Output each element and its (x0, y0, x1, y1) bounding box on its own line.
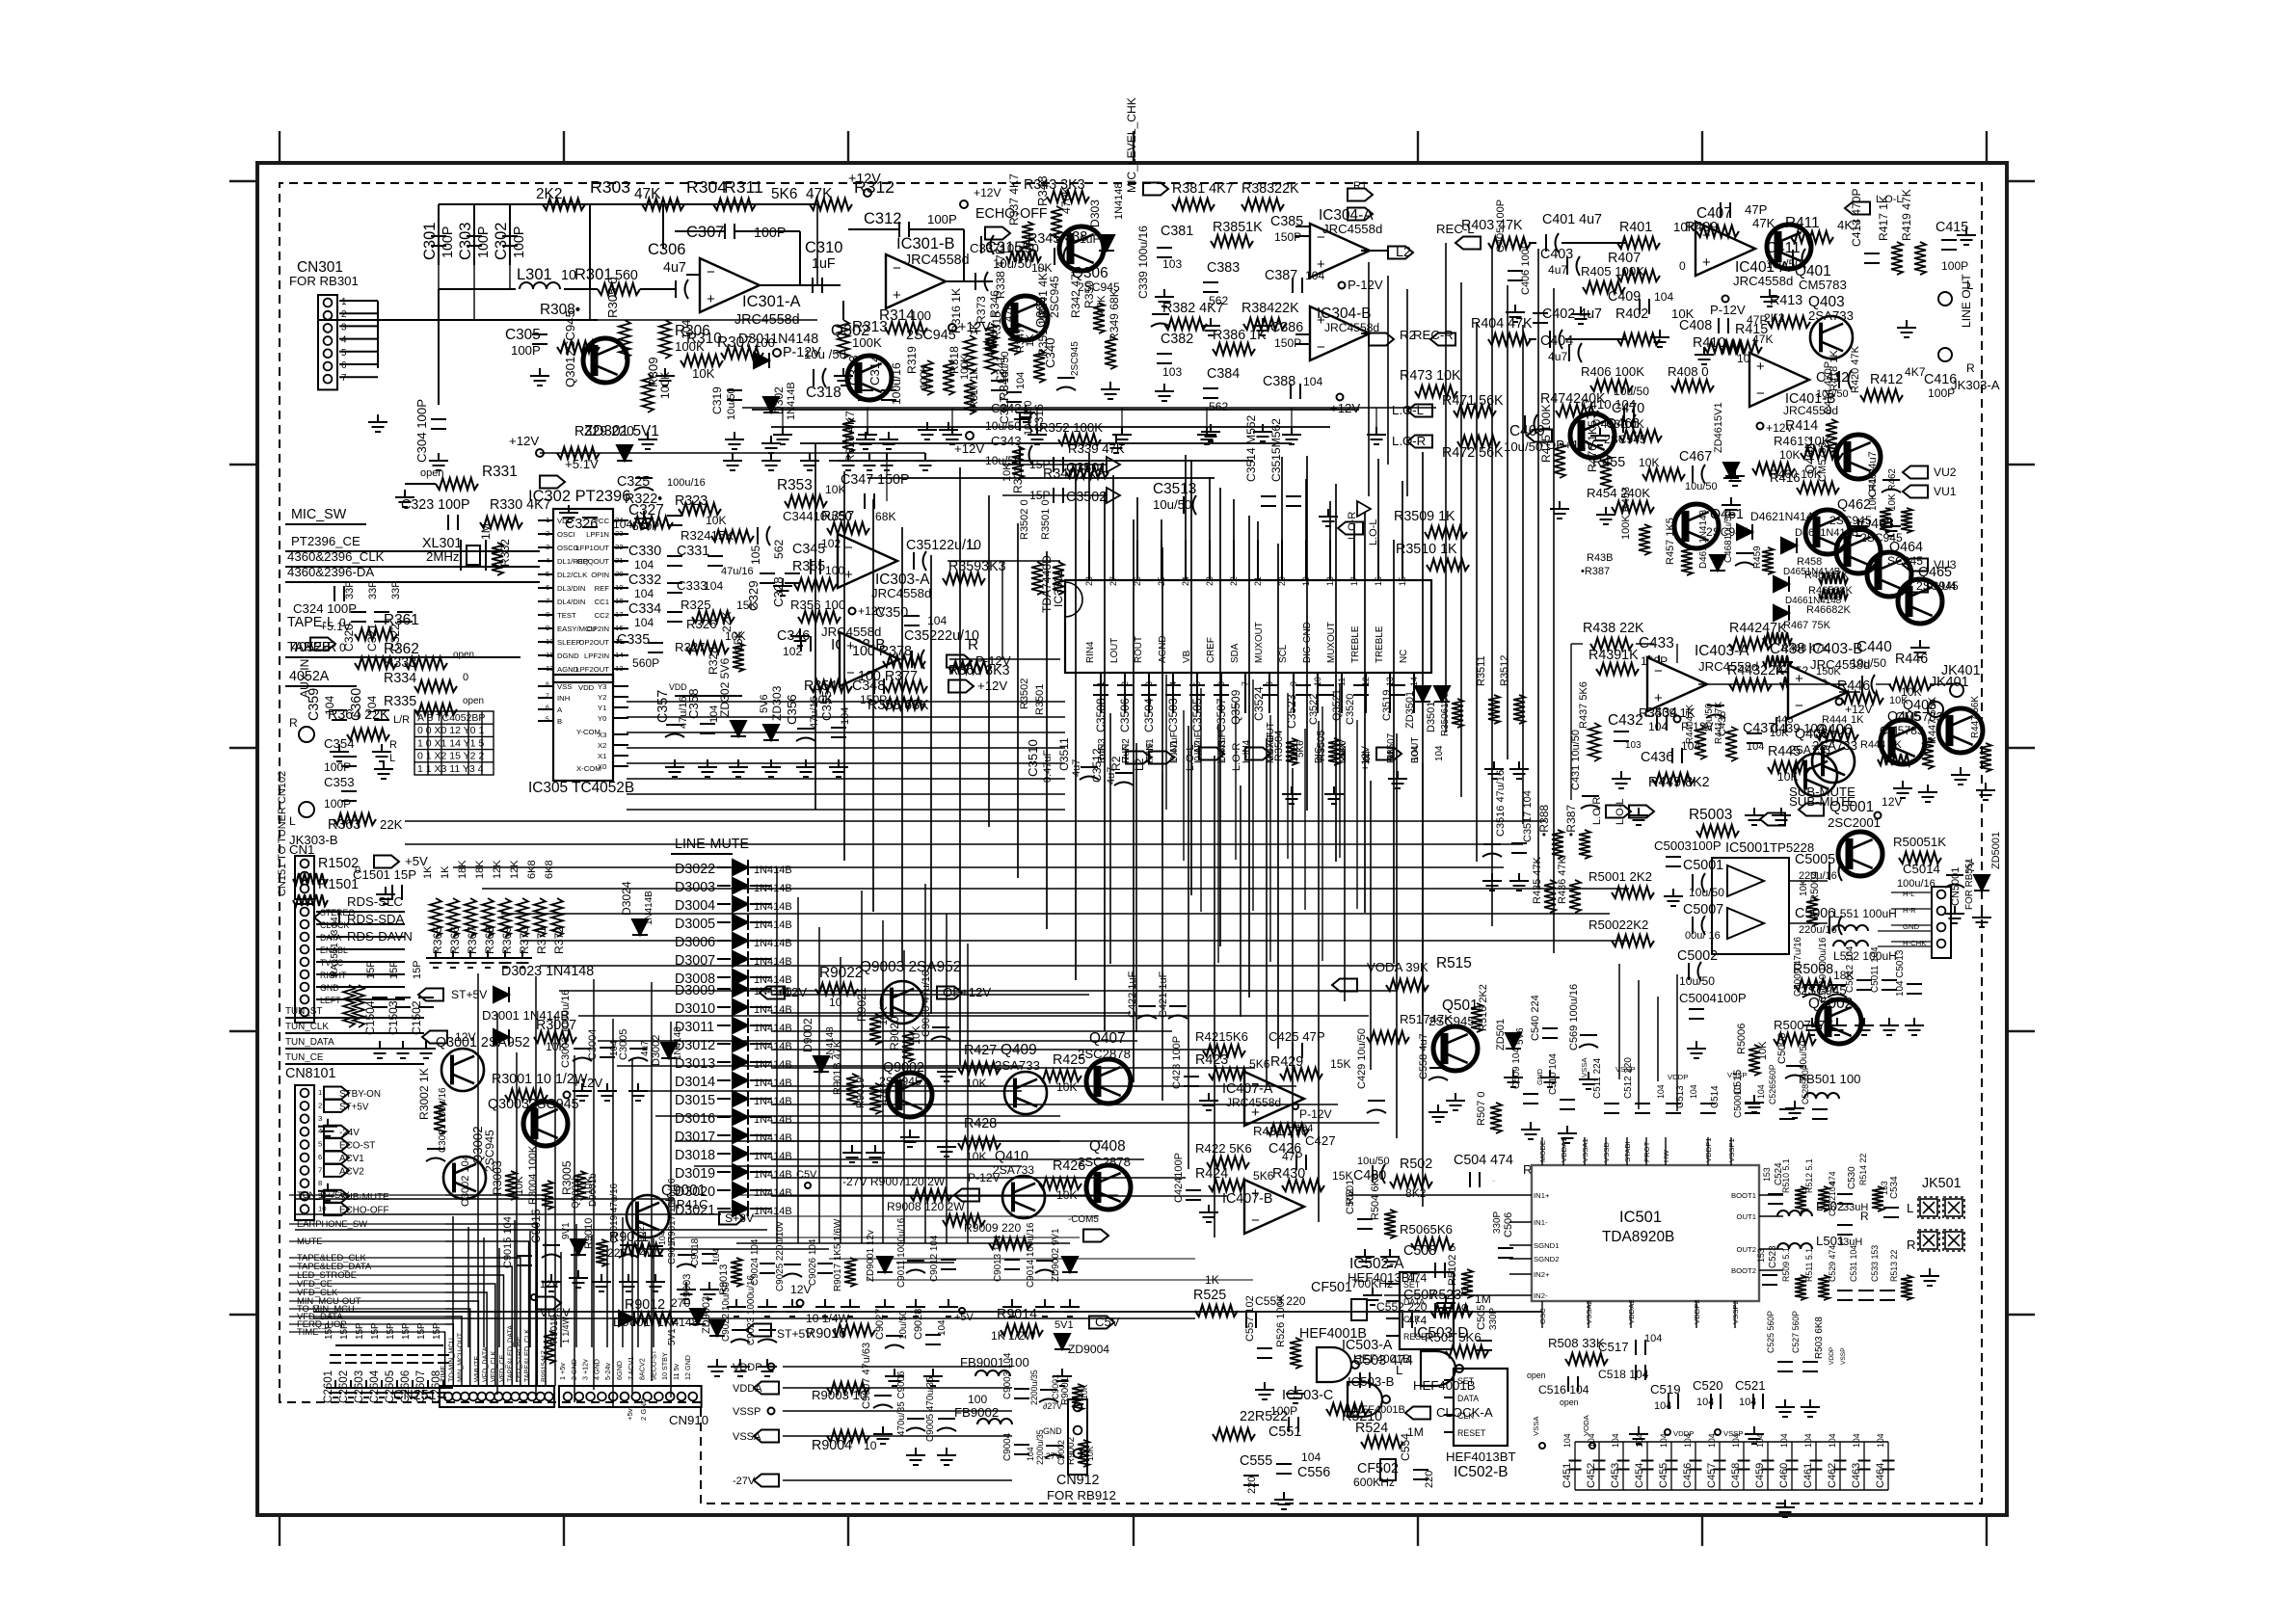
ground (939, 1299, 958, 1317)
resistor R414 (1826, 419, 1837, 452)
resistor R320 (842, 418, 854, 453)
svg-text:100K R453: 100K R453 (1620, 487, 1632, 540)
pad (1722, 296, 1729, 303)
jack AUX L (299, 802, 314, 817)
svg-text:104: 104 (1731, 1433, 1741, 1448)
svg-text:100P: 100P (1941, 259, 1968, 273)
resistor R3002 (434, 1102, 445, 1134)
wire (783, 1410, 1012, 1412)
wire (750, 1189, 771, 1191)
svg-text:C461: C461 (1802, 1463, 1814, 1488)
pad (1337, 394, 1344, 401)
capacitor C335 (648, 643, 663, 652)
capacitor C388 (1291, 384, 1300, 399)
svg-text:C554: C554 (1399, 1433, 1412, 1461)
wire (717, 988, 731, 990)
svg-text:1 +5v: 1 +5v (558, 1363, 567, 1380)
tick mark (229, 1314, 257, 1316)
svg-text:15P: 15P (432, 1322, 442, 1340)
resistor R3509 (1425, 526, 1467, 538)
resistor R5003 (1696, 825, 1739, 837)
svg-text:1N414B: 1N414B (754, 1004, 792, 1016)
connector CN301 (318, 295, 337, 389)
svg-text:5: 5 (546, 716, 549, 723)
svg-text:L: L (968, 537, 976, 553)
svg-text:RA1501 33 x4: RA1501 33 x4 (330, 917, 340, 977)
svg-text:0.47uF: 0.47uF (1042, 749, 1054, 783)
svg-text:C462: C462 (1827, 1463, 1838, 1488)
ground (783, 1299, 802, 1317)
diode ZD301 (617, 445, 632, 461)
svg-text:47K: 47K (1752, 216, 1775, 230)
svg-text:R512 5.1: R512 5.1 (1804, 1158, 1814, 1193)
svg-text:C459: C459 (1754, 1463, 1766, 1488)
svg-text:C414 470P: C414 470P (1823, 361, 1834, 414)
ground (376, 887, 395, 904)
capacitor C5007 (1693, 916, 1705, 935)
svg-text:7: 7 (341, 373, 347, 384)
resistor R409 (1696, 226, 1739, 237)
resistor R322 (630, 517, 673, 528)
transistor Q302 (847, 356, 892, 400)
pad (849, 608, 856, 615)
svg-text:100: 100 (968, 1393, 987, 1406)
resistor R436 (1569, 880, 1581, 913)
svg-text:100P: 100P (324, 797, 351, 811)
svg-text:R425: R425 (1053, 1052, 1085, 1068)
svg-text:100: 100 (825, 564, 844, 577)
ground (1509, 873, 1529, 891)
bus wire (578, 1015, 1369, 1017)
svg-text:100P: 100P (927, 212, 957, 226)
svg-text:104: 104 (1656, 1084, 1666, 1099)
svg-text:ST+5V: ST+5V (777, 1327, 814, 1341)
svg-text:5K6: 5K6 (1253, 1169, 1274, 1183)
svg-text:C3523: C3523 (1285, 694, 1298, 729)
svg-text:VFD_DATA: VFD_DATA (481, 1346, 490, 1382)
wire (538, 533, 553, 535)
ground (829, 759, 848, 777)
capacitor C9011 (906, 1261, 925, 1273)
svg-text:L: L (1907, 1201, 1913, 1215)
ground (1319, 509, 1338, 526)
capacitor C312 (899, 222, 909, 237)
svg-text:R513 22: R513 22 (1889, 1250, 1899, 1282)
resistor R405 (1583, 281, 1625, 293)
capacitor C320 (351, 612, 366, 622)
pad (960, 200, 968, 208)
resistor R3510 (1427, 559, 1469, 571)
svg-text:C463: C463 (1851, 1463, 1862, 1488)
IC3501 pin (1220, 673, 1222, 713)
capacitor C344 (758, 526, 770, 545)
ground (1274, 1492, 1294, 1509)
svg-text:C555: C555 (1240, 1453, 1272, 1469)
svg-text:D3022: D3022 (675, 862, 715, 877)
wire (675, 695, 742, 697)
svg-text:VSSP: VSSP (733, 1406, 761, 1418)
IC3501 pin (1365, 673, 1367, 713)
diode D3004 (733, 896, 748, 912)
svg-text:104: 104 (1689, 1084, 1698, 1099)
svg-text:C3507: C3507 (1215, 698, 1228, 732)
ground (900, 1130, 920, 1147)
IC IC501 TDA8920B (1532, 1165, 1759, 1301)
svg-text:L502: L502 (1816, 1199, 1844, 1213)
svg-text:9ECO-ST: 9ECO-ST (649, 1349, 657, 1380)
resistor R9002 (1078, 1440, 1089, 1467)
svg-text:R3502: R3502 (1019, 678, 1030, 709)
capacitor C411 (1793, 249, 1805, 268)
resistor R362 (355, 657, 397, 669)
svg-text:VDDP: VDDP (733, 1362, 762, 1373)
svg-text:IC503-B: IC503-B (1348, 1374, 1395, 1389)
wire (750, 958, 771, 960)
svg-text:D3002: D3002 (651, 1035, 662, 1066)
IC3501 pin (1233, 540, 1235, 580)
svg-text:C455: C455 (1658, 1463, 1669, 1488)
svg-text:0.47uF: 0.47uF (1169, 732, 1180, 761)
svg-text:10 STBY: 10 STBY (660, 1352, 669, 1380)
resistor R312 (810, 199, 852, 210)
svg-text:IC305 TC4052B: IC305 TC4052B (528, 780, 634, 796)
resistor R355 (794, 578, 837, 590)
svg-text:FB9001 100: FB9001 100 (960, 1355, 1029, 1370)
svg-text:104: 104 (634, 616, 654, 629)
capacitor C323 (448, 515, 458, 530)
bus wire (694, 1165, 1022, 1167)
wire (316, 998, 405, 1000)
terminal OP+12V (937, 987, 962, 999)
tick mark (2007, 1314, 2035, 1316)
svg-text:D3015: D3015 (675, 1093, 715, 1108)
resistor R435 (1544, 880, 1556, 913)
svg-text:R4215K6: R4215K6 (1195, 1029, 1248, 1044)
IC3501 pin (1305, 540, 1307, 580)
capacitor C3514 (1261, 496, 1276, 506)
capacitor C329 (760, 573, 775, 583)
svg-text:150P: 150P (1274, 230, 1301, 244)
transistor Q401 (1767, 225, 1811, 269)
svg-text:C508: C508 (1403, 1243, 1436, 1259)
svg-text:4360&2396_CLK: 4360&2396_CLK (287, 549, 385, 564)
svg-text:+12V: +12V (509, 434, 539, 448)
transistor Q410 (1002, 1176, 1045, 1218)
wire (613, 533, 628, 535)
wire (613, 706, 628, 708)
gate IC503-C (1348, 1382, 1382, 1417)
svg-text:C403: C403 (1540, 247, 1573, 262)
resistor R457 (1681, 546, 1693, 575)
wire (750, 921, 771, 923)
terminal ACV2 (324, 1164, 349, 1177)
pad (768, 1364, 775, 1370)
ground (1590, 428, 1610, 445)
ground (393, 1041, 413, 1058)
capacitor C384 (1203, 388, 1218, 398)
resistor R516 (1471, 1003, 1482, 1032)
wire (509, 204, 511, 265)
svg-text:R460 10K: R460 10K (1770, 467, 1822, 481)
svg-text:1: 1 (318, 1088, 322, 1097)
IC3501 pin (1341, 673, 1343, 713)
svg-text:4u7: 4u7 (663, 260, 686, 276)
capacitor C506 (1498, 1248, 1513, 1258)
ground (416, 1041, 436, 1058)
svg-text:HW: HW (1662, 1149, 1670, 1162)
wire (1444, 1379, 1454, 1381)
transistor Q9001 (627, 1195, 669, 1237)
svg-text:R3505: R3505 (1316, 731, 1327, 761)
capacitor C321 (374, 612, 389, 622)
svg-text:C527 560P: C527 560P (1791, 1311, 1801, 1353)
svg-text:15P: 15P (388, 960, 400, 979)
svg-text:C5011 104: C5011 104 (1870, 946, 1881, 993)
ground (495, 950, 515, 968)
svg-text:1N414B: 1N414B (786, 382, 797, 420)
bus wire (453, 866, 1504, 868)
wire (613, 717, 628, 719)
wire (538, 641, 553, 643)
svg-text:R353: R353 (777, 477, 813, 493)
svg-text:C354: C354 (324, 736, 355, 751)
wire (285, 685, 357, 687)
capacitor C3516 (1482, 844, 1502, 857)
capacitor C317 (991, 381, 1006, 390)
resistor R348 (1051, 206, 1062, 241)
svg-text:INH: INH (557, 694, 570, 703)
ground (1504, 1070, 1523, 1087)
capacitor C3005 (628, 1049, 648, 1061)
wire (750, 1134, 771, 1136)
svg-text:15P: 15P (324, 1322, 334, 1340)
svg-text:C3511: C3511 (1057, 737, 1071, 771)
wire CN301 to base (318, 319, 598, 321)
resistor R9009 (989, 1237, 1031, 1249)
svg-text:R341 4K7: R341 4K7 (1036, 266, 1050, 318)
bus wire v (1322, 706, 1323, 961)
resistor R9008 (943, 1214, 985, 1226)
tick mark (1986, 131, 1988, 163)
connector CN912 (1068, 1399, 1087, 1475)
svg-text:R413: R413 (1770, 293, 1802, 308)
wire (316, 936, 405, 938)
ground (403, 1380, 422, 1397)
ground (873, 1426, 893, 1444)
svg-text:C409: C409 (1608, 289, 1641, 305)
wire (613, 654, 628, 656)
svg-text:6: 6 (318, 1153, 322, 1161)
svg-text:L301: L301 (517, 266, 552, 283)
capacitor C9007 (873, 1396, 893, 1408)
t (1629, 806, 1654, 818)
svg-text:VDDA2: VDDA2 (1627, 1299, 1636, 1324)
resistor R421 (1203, 1045, 1245, 1056)
t2 (1199, 748, 1224, 760)
wire (339, 363, 378, 365)
svg-text:0 1 X2 15 Y2 2: 0 1 X2 15 Y2 2 (417, 751, 484, 762)
resistor R430 (1282, 1180, 1324, 1191)
op-amp IC301-B (886, 254, 946, 308)
resistor R9004 (827, 1430, 869, 1442)
svg-text:7: 7 (546, 693, 549, 700)
svg-text:DATA: DATA (1457, 1394, 1479, 1403)
svg-text:C427: C427 (1305, 1133, 1336, 1148)
pad (531, 1294, 537, 1300)
diode ZD9004 (1055, 1334, 1070, 1349)
ground (326, 1380, 345, 1397)
svg-text:5: 5 (341, 348, 347, 359)
svg-text:C357: C357 (655, 690, 671, 723)
svg-text:C331: C331 (677, 544, 709, 559)
resistor R459 (1762, 547, 1774, 574)
ground (1286, 1386, 1305, 1403)
wire (339, 376, 378, 378)
svg-text:C9018: C9018 (690, 1237, 701, 1266)
resistor R378 (883, 655, 925, 667)
ground (1282, 786, 1301, 804)
capacitor C468 (1735, 553, 1754, 566)
capacitor C417 (1882, 480, 1901, 492)
svg-text:8: 8 (546, 681, 549, 688)
svg-text:MIC_SW: MIC_SW (291, 507, 347, 522)
svg-text:68K: 68K (875, 510, 896, 523)
svg-text:LFP1OUT: LFP1OUT (575, 544, 609, 552)
ground (1722, 497, 1741, 515)
svg-text:VCC: VCC (594, 517, 610, 525)
svg-text:R46682K: R46682K (1806, 604, 1852, 616)
svg-text:R357: R357 (821, 509, 854, 524)
t (1338, 522, 1363, 535)
svg-text:C9001: C9001 (1051, 1374, 1060, 1399)
ground (542, 1274, 561, 1291)
svg-text:10K: 10K (1080, 1384, 1089, 1399)
bus wire (521, 940, 1629, 942)
svg-text:PROT: PROT (1642, 1141, 1651, 1162)
resistor R506 (1411, 1237, 1454, 1249)
svg-text:C350: C350 (875, 605, 908, 621)
wire (285, 550, 540, 552)
wire (1361, 333, 1369, 334)
wire (750, 1006, 771, 1008)
ground (1107, 436, 1126, 453)
bus wire (636, 1090, 1022, 1092)
svg-text:C401 4u7: C401 4u7 (1542, 212, 1602, 227)
resistor R332 (492, 543, 503, 575)
ground (885, 1369, 904, 1386)
transistor Q465 (1898, 579, 1942, 624)
svg-text:C382: C382 (1161, 332, 1193, 347)
svg-text:C3003 1000u/16: C3003 1000u/16 (560, 990, 572, 1068)
op-amp IC5001-2 (1727, 908, 1764, 939)
capacitor C3517 (1511, 843, 1527, 853)
svg-text:R458: R458 (1797, 556, 1822, 568)
svg-text:C3524: C3524 (1252, 686, 1266, 721)
svg-text:C457: C457 (1706, 1463, 1718, 1488)
resistor R369 (499, 898, 511, 937)
svg-text:R334: R334 (384, 671, 416, 686)
IC3501 pin (1329, 540, 1331, 580)
wire (316, 923, 405, 925)
wire (377, 301, 379, 368)
bus wire (501, 913, 1610, 915)
diode D3007 (733, 951, 748, 967)
svg-text:D3501: D3501 (1426, 702, 1437, 732)
diode D3003 (733, 878, 748, 893)
IC3501 pin (1209, 540, 1211, 580)
capacitor C409 (1640, 299, 1649, 314)
resistor R308 (557, 341, 600, 353)
net arrow (1107, 457, 1120, 472)
svg-text:C521: C521 (1735, 1378, 1766, 1393)
svg-text:4u7: 4u7 (1548, 263, 1567, 277)
svg-text:D3014: D3014 (675, 1075, 715, 1090)
svg-text:3: 3 (318, 1114, 322, 1123)
wire (1444, 1431, 1454, 1433)
bus wire (655, 1115, 1060, 1117)
capacitor C318 (814, 368, 826, 387)
tick mark (229, 1030, 257, 1032)
svg-text:10K: 10K (1777, 770, 1799, 784)
wire (750, 866, 771, 868)
svg-text:OSCI: OSCI (557, 530, 575, 539)
svg-text:C9026 104: C9026 104 (808, 1238, 818, 1286)
svg-text:14: 14 (1409, 677, 1419, 686)
svg-text:R356 100: R356 100 (790, 598, 845, 612)
ground (374, 761, 393, 779)
wire (750, 1171, 771, 1173)
svg-text:Q410: Q410 (995, 1149, 1028, 1164)
diode D9001 (619, 1311, 634, 1326)
resistor R373 (985, 324, 997, 355)
resistor R474 (1556, 405, 1598, 416)
diode ZD302 (731, 721, 746, 736)
svg-text:10K: 10K (706, 514, 727, 527)
capacitor C324 (334, 586, 344, 601)
svg-text:8ACV2: 8ACV2 (638, 1358, 647, 1380)
resistor R350 (1093, 303, 1105, 333)
svg-text:1N414B: 1N414B (754, 1096, 792, 1107)
svg-text:C415: C415 (1936, 220, 1968, 235)
svg-text:C332: C332 (628, 572, 661, 588)
wire (783, 1366, 1012, 1368)
capacitor (1093, 685, 1108, 695)
svg-text:R455: R455 (1592, 455, 1625, 470)
svg-text:C3522: C3522 (1308, 694, 1320, 725)
ground (530, 368, 549, 386)
svg-text:L551 100uH: L551 100uH (1833, 907, 1897, 920)
svg-text:R3851K: R3851K (1213, 220, 1263, 235)
svg-text:R303: R303 (590, 177, 630, 197)
svg-text:R426: R426 (1053, 1158, 1085, 1174)
svg-text:7 ACV1: 7 ACV1 (627, 1357, 635, 1380)
capacitor C5008 (1785, 1066, 1804, 1078)
svg-text:IC301-A: IC301-A (742, 293, 801, 310)
svg-text:330P: 330P (1488, 1308, 1499, 1330)
ground (1540, 1070, 1560, 1087)
svg-text:C3517 104: C3517 104 (1522, 790, 1534, 842)
capacitor C304 (431, 419, 446, 429)
resistor network RA1501b (353, 985, 364, 1027)
svg-text:R3502 0: R3502 0 (1019, 499, 1030, 540)
svg-text:-27V: -27V (733, 1476, 756, 1487)
svg-text:Y-COM: Y-COM (576, 728, 601, 736)
IC3501 pin (1196, 673, 1198, 713)
capacitor C330 (667, 556, 682, 566)
svg-text:15P: 15P (412, 960, 423, 979)
svg-text:C453: C453 (1610, 1463, 1621, 1488)
outer frame (257, 163, 2007, 1515)
